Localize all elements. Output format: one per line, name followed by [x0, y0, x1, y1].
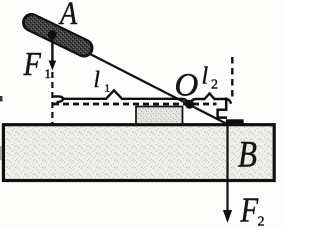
step bracket under lever tip: [218, 98, 227, 118]
fulcrum block on box: [136, 107, 183, 125]
brace for l2: [191, 93, 232, 103]
svg-text:l: l: [94, 67, 100, 92]
svg-text:F: F: [23, 45, 42, 83]
svg-text:1: 1: [45, 66, 52, 81]
dashed vertical at l2 right bound: [231, 57, 233, 101]
black contact pad on box top: [226, 119, 244, 125]
dashed vertical through F1 line of action: [51, 72, 53, 124]
force F1 arrow: [51, 38, 53, 62]
brace for l1: [52, 90, 188, 102]
force F2 line through box: [226, 124, 228, 212]
svg-text:2: 2: [211, 78, 218, 93]
dashed horizontal reference line through O: [53, 103, 217, 106]
lever bar (diagonal line from A through O to box top): [52, 35, 226, 124]
handle rod at A: [32, 23, 85, 49]
fulcrum dot O: [185, 100, 194, 109]
svg-text:A: A: [58, 0, 77, 31]
scan artifact marks at left edge: [0, 96, 3, 102]
svg-text:F: F: [240, 191, 259, 227]
svg-text:2: 2: [258, 215, 265, 228]
big box (slab B rests on): [3, 125, 274, 181]
pivot dot at A: [48, 30, 57, 39]
svg-text:B: B: [238, 135, 257, 175]
svg-text:1: 1: [105, 83, 111, 95]
svg-text:l: l: [202, 64, 209, 90]
